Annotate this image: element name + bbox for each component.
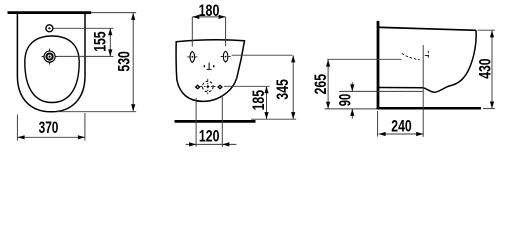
dim 370 extension lines bbox=[16, 115, 18, 141]
body profile (side) bbox=[379, 30, 476, 92]
arrows 430 bbox=[490, 30, 494, 37]
arrows 180 bbox=[192, 15, 199, 19]
svg-text:180: 180 bbox=[199, 2, 220, 20]
dim 430 line bbox=[491, 30, 493, 108]
svg-text:90: 90 bbox=[336, 94, 354, 106]
bidet outline (plan) bbox=[17, 13, 85, 112]
svg-text:370: 370 bbox=[39, 119, 59, 137]
left fixing diamond bbox=[195, 84, 201, 89]
dim 185 line bbox=[266, 86, 268, 119]
dim 155 line bbox=[109, 28, 111, 56]
dim 240 extension lines bbox=[377, 111, 379, 137]
floor line (front) bbox=[175, 120, 256, 123]
dim 180 line bbox=[192, 16, 225, 18]
dim 120 line bbox=[186, 143, 237, 145]
dim 185 extension line bbox=[224, 85, 270, 87]
bottom extension (left of wall) bbox=[325, 108, 377, 110]
arrows 370 bbox=[18, 135, 25, 139]
svg-text:155: 155 bbox=[92, 31, 110, 51]
dim 345 line bbox=[292, 55, 294, 119]
svg-text:530: 530 bbox=[116, 51, 134, 71]
faucet hole bbox=[46, 25, 53, 32]
dim 90 reference line bbox=[339, 90, 423, 92]
arrows 155 bbox=[108, 28, 112, 35]
svg-text:345: 345 bbox=[274, 79, 292, 99]
arrows 345 bbox=[291, 55, 295, 62]
wall line (plan) bbox=[8, 11, 92, 14]
svg-text:120: 120 bbox=[199, 128, 220, 146]
dim 370 line bbox=[18, 136, 85, 138]
rim line (side) bbox=[379, 27, 476, 30]
arrows 240 bbox=[379, 132, 386, 136]
right fixing diamond bbox=[217, 84, 223, 89]
dim 530 line bbox=[132, 13, 134, 111]
arrows 265 bbox=[326, 60, 330, 67]
hidden drain (dashed) bbox=[402, 53, 420, 59]
bidet body (front) bbox=[176, 40, 244, 102]
drain fitting (front, hidden) bbox=[203, 81, 214, 92]
wall line (side) bbox=[377, 21, 380, 110]
left mounting hole bbox=[190, 52, 195, 63]
arrows 90 (outside) bbox=[350, 84, 354, 91]
arrows 120 (outside) bbox=[189, 142, 196, 146]
right mounting hole bbox=[223, 51, 228, 62]
arrows 530 bbox=[131, 13, 135, 20]
dim 430 extension lines bbox=[478, 29, 495, 31]
dim 240 line bbox=[379, 133, 424, 135]
dim 345 extension lines bbox=[232, 54, 293, 56]
svg-text:265: 265 bbox=[312, 74, 330, 94]
dim 530 extension lines bbox=[91, 12, 136, 14]
dim 155 extension lines bbox=[53, 27, 113, 29]
svg-text:185: 185 bbox=[250, 90, 268, 110]
bowl rim (plan) bbox=[25, 36, 79, 103]
overflow marks bbox=[204, 65, 206, 67]
floor/base line (side) bbox=[377, 107, 481, 110]
waste fitting (plan) bbox=[44, 51, 55, 62]
svg-text:430: 430 bbox=[477, 58, 495, 78]
arrows 185 bbox=[264, 86, 268, 93]
dim 265 line bbox=[327, 60, 329, 109]
dim 180 extension lines bbox=[191, 17, 193, 47]
drain centre line / dim 265 top extension bbox=[327, 58, 401, 60]
dim 120 extension lines bbox=[195, 98, 197, 147]
svg-text:240: 240 bbox=[391, 118, 411, 136]
dim 90 arrow stems bbox=[351, 82, 353, 91]
